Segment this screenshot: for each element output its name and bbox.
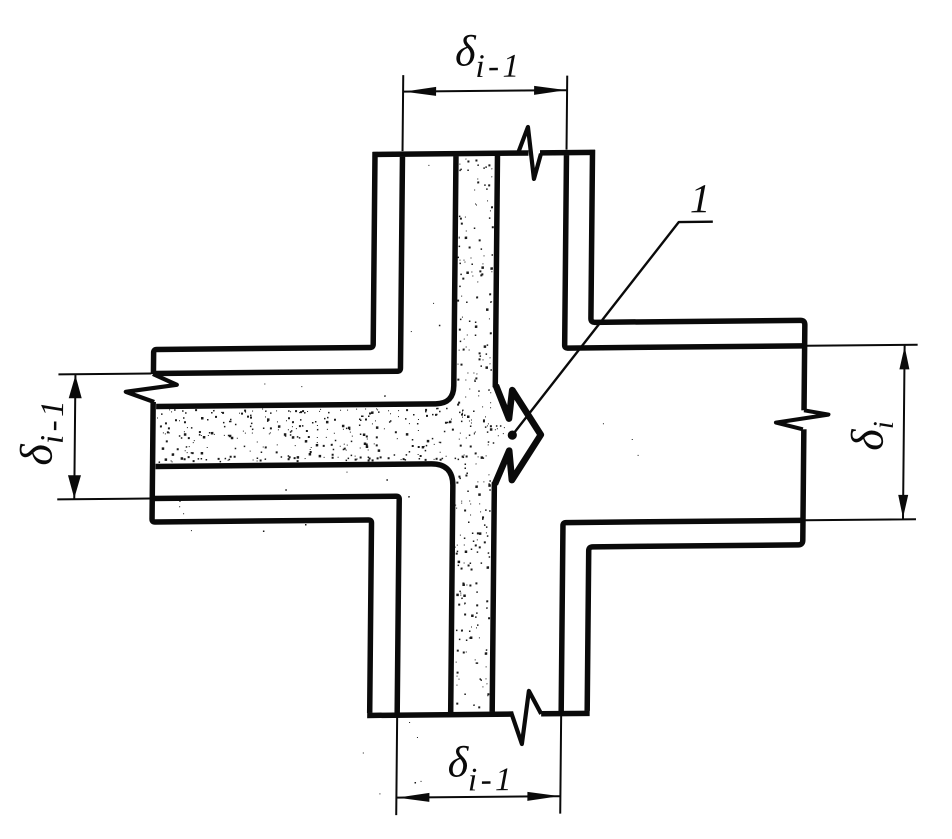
svg-text:δi-1: δi-1 [447, 737, 515, 799]
svg-text:δi-1: δi-1 [455, 26, 523, 85]
svg-text:1: 1 [690, 175, 711, 221]
svg-text:δi: δi [842, 421, 900, 451]
svg-text:δi-1: δi-1 [11, 397, 72, 466]
